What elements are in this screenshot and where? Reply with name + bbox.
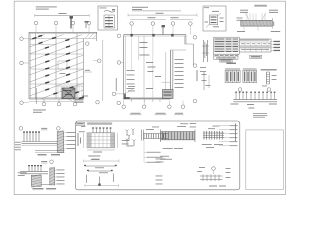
rebar note rows right: [237, 10, 281, 32]
rebar cage group A: [225, 69, 240, 83]
plan1 leader labels below: [68, 96, 88, 103]
table footer row: [219, 60, 236, 64]
plan1 section flag a: [70, 16, 74, 29]
mid bar marks: [202, 72, 211, 90]
node detail 2: [18, 160, 65, 190]
plan2 interior lines: [132, 36, 173, 98]
ladder detail: [261, 69, 277, 86]
notes text right: [253, 113, 268, 117]
plan2 right axis circles: [193, 36, 197, 103]
beam labels stack: [144, 140, 163, 163]
plan2 right rotated dim: [197, 70, 198, 81]
plan2 slab outline: [124, 35, 194, 102]
rounded detail box: [76, 121, 240, 190]
legend box: [98, 6, 118, 30]
box title: [87, 123, 112, 125]
section beam title: [254, 5, 267, 7]
plan2 corner mark: [124, 90, 173, 100]
specification table left: [214, 37, 240, 54]
box left rotated label: [78, 126, 86, 146]
plan1 rebar diagonal arrows: [30, 35, 85, 99]
box left small labels: [156, 159, 166, 185]
node detail 1: [15, 127, 76, 156]
plan2 bottom axis circles: [122, 101, 185, 109]
y-bar marks: [126, 129, 136, 147]
bottom elevation detail: [231, 88, 278, 109]
plan2 bottom dim texts: [130, 113, 184, 115]
plan2 top axis circles: [130, 22, 192, 35]
plan1 right axis circles: [86, 42, 121, 105]
plan2 left axis circles: [112, 34, 123, 96]
stirrup elevation A: [160, 123, 196, 160]
stirrup elevation B: [202, 126, 224, 148]
sheet border frame: [14, 1, 285, 194]
plan1 left axis circles: [20, 37, 29, 105]
plan2 section flag: [162, 25, 166, 35]
plan1 top dimension line: [35, 13, 89, 17]
plan2 right wall labels: [175, 59, 184, 88]
plan1 title text: [36, 6, 57, 9]
empty stamp box: [246, 130, 283, 190]
bottom center detail: [197, 167, 231, 187]
box right labels stack: [219, 125, 238, 146]
plan1 bottom caption: [29, 100, 84, 113]
detail box 2: [203, 6, 226, 31]
plan1 interior beam grid: [30, 34, 84, 99]
plan1 right dim text: [84, 70, 117, 91]
plan1 slab outline: [29, 32, 97, 99]
mid rebar bars: [200, 40, 209, 72]
plan2 dimension lines: [128, 13, 197, 20]
specification subtable: [214, 54, 238, 59]
plan1 section flag b: [85, 21, 89, 28]
box corner stamp: [76, 122, 84, 125]
plan2 left wall labels: [127, 70, 135, 89]
plan1 axis dash line: [36, 40, 103, 104]
mesh plan detail: [79, 127, 129, 159]
plan1 opening detail: [62, 88, 75, 99]
box right rotated label: [235, 124, 236, 142]
bent bar detail: [84, 159, 120, 187]
plan1 top axis circles: [34, 21, 91, 32]
schedule table right: [239, 39, 271, 52]
schedule right labels: [271, 41, 280, 51]
plan2 center labels: [140, 42, 162, 89]
section beam detail: [241, 14, 274, 31]
beam elevation small: [142, 127, 169, 141]
plan2 title text: [132, 7, 181, 11]
stamp 17B1500: [250, 55, 262, 58]
plan2 bottom leaders: [126, 86, 135, 93]
plan1 bottom axis circles: [42, 99, 77, 106]
plan2 column marks: [130, 34, 173, 37]
rebar cage group B: [243, 69, 257, 83]
